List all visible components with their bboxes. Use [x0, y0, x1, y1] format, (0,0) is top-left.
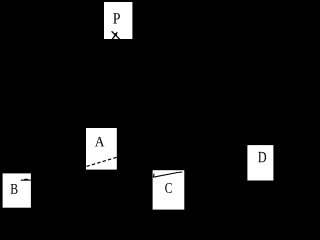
trajectory dash in B	[21, 179, 31, 181]
point x mark below P	[112, 31, 120, 39]
tick at end of C line	[152, 174, 155, 178]
label C	[165, 183, 171, 193]
label P	[113, 13, 120, 23]
label D	[258, 152, 266, 162]
node B box	[3, 173, 31, 207]
label B	[11, 184, 18, 194]
dashed trajectory line through A	[87, 157, 117, 166]
node P box	[104, 2, 132, 39]
label A	[95, 137, 105, 147]
node C box	[153, 170, 185, 209]
trajectory line through C	[153, 172, 182, 177]
node A box	[86, 128, 117, 170]
node D box	[247, 145, 273, 180]
